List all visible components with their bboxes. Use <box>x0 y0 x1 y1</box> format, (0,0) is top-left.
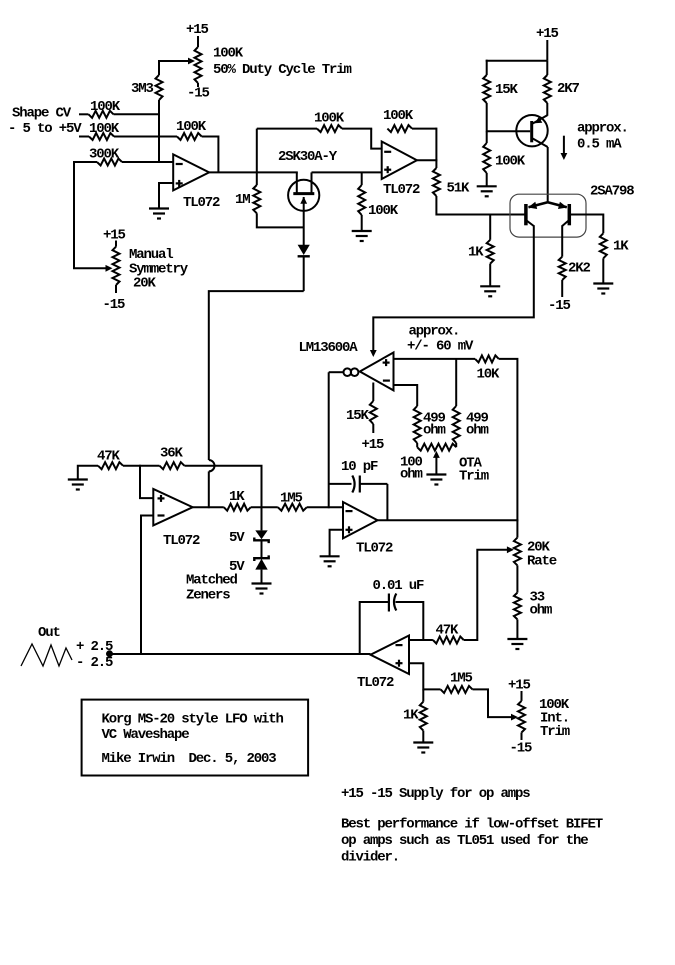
svg-text:1M5: 1M5 <box>450 671 473 687</box>
arrow int trim wiper <box>511 714 518 721</box>
ground (below 100K) <box>352 230 372 232</box>
wire duty trim wiper to 3M3 top <box>159 60 189 62</box>
ground (U1 plus input) <box>149 207 169 209</box>
resistor R_15K 15K with wires <box>486 60 488 75</box>
wire 300K left down to Manual Symmetry wiper <box>74 161 106 268</box>
svg-text:ohm: ohm <box>530 603 553 619</box>
svg-text:2SK30A-Y: 2SK30A-Y <box>278 149 338 165</box>
op-amp U2 TL072 <box>382 142 417 180</box>
transistor Q3b right PNP <box>568 204 572 225</box>
zener Z1 5V <box>261 507 263 530</box>
op-amp U4 TL072 integrator <box>343 502 378 538</box>
ground (integrator plus) <box>320 555 340 557</box>
svg-text:ohm: ohm <box>423 423 446 439</box>
wire trimpot R_sym bottom <box>115 285 117 293</box>
arrow into OTA plus input <box>370 350 377 357</box>
svg-text:100K: 100K <box>213 46 244 62</box>
wire rate pot to 33 ohm <box>516 565 518 592</box>
zener Z2 5V <box>261 540 263 558</box>
resistor R_51K 51K with wires <box>435 160 437 168</box>
ground (47K left) <box>68 478 88 480</box>
svg-text:op amps such as TL051 used for: op amps such as TL051 used for the <box>341 833 588 849</box>
resistor R_b1 1K with wires <box>489 215 491 240</box>
svg-text:+15: +15 <box>186 22 209 38</box>
svg-text:51K: 51K <box>447 181 471 197</box>
svg-text:Zeners: Zeners <box>186 588 230 604</box>
resistor R_b2 1K with wires <box>600 233 607 258</box>
arrow duty trim wiper <box>188 58 195 65</box>
svg-text:Trim: Trim <box>540 724 570 740</box>
svg-text:approx.: approx. <box>409 324 460 340</box>
wire 51K to 2SA798 left base <box>436 214 526 216</box>
wire U2 minus input drop <box>371 129 382 149</box>
svg-text:2K7: 2K7 <box>557 81 580 97</box>
wire integrator plus to ground <box>330 530 343 557</box>
wire right collector to 2K2 <box>561 225 563 256</box>
resistor R_1Ks 1K with wires <box>224 504 251 511</box>
op-amp U5 TL072 Schmitt <box>153 489 192 525</box>
ground (divider 1K) <box>413 741 433 743</box>
wire summing bus (3M3 to op-amp U1 minus input) <box>158 100 160 163</box>
svg-text:0.5 mA: 0.5 mA <box>577 137 622 153</box>
resistor R_10K 10K with wires <box>475 355 499 362</box>
svg-text:+15: +15 <box>103 228 126 244</box>
wire 1M bottom to JFET gate <box>257 213 304 227</box>
wire U2 output to 51K and feedback <box>417 159 438 161</box>
wire corner down to resistor 3M3 <box>158 60 160 75</box>
svg-text:Korg MS-20 style LFO with: Korg MS-20 style LFO with <box>102 712 284 728</box>
resistor R_in3 300K with wires <box>74 161 97 163</box>
resistor R_499a 499 ohm <box>414 406 421 443</box>
svg-text:TL072: TL072 <box>383 182 420 198</box>
arrow OTA trim wiper up <box>433 451 440 458</box>
svg-text:+15: +15 <box>508 678 531 694</box>
svg-text:Shape CV: Shape CV <box>12 106 72 122</box>
svg-text:0.01 uF: 0.01 uF <box>373 578 425 594</box>
resistor R_100Kb 100K with wires <box>486 131 488 143</box>
ground (right 1K) <box>593 282 613 284</box>
wire U5 minus input from Out bus <box>141 516 153 655</box>
svg-text:1K: 1K <box>229 489 245 505</box>
ground (33 ohm) <box>507 638 527 640</box>
resistor R_499b 499 ohm <box>453 406 460 443</box>
resistor R_1M5d 1M5 with wires <box>423 688 440 690</box>
svg-text:Rate: Rate <box>527 554 557 570</box>
svg-text:Out: Out <box>38 625 61 641</box>
svg-text:-15: -15 <box>103 297 126 313</box>
resistor R_1M5 1M5 with wires <box>278 504 307 511</box>
wire U5 output row <box>193 506 224 508</box>
wire +15 rail <box>546 40 548 61</box>
svg-text:1M5: 1M5 <box>280 491 303 507</box>
svg-text:ohm: ohm <box>400 467 423 483</box>
svg-text:36K: 36K <box>160 446 184 462</box>
svg-text:1K: 1K <box>468 245 484 261</box>
transistor Q3a left PNP <box>524 204 528 225</box>
svg-text:1K: 1K <box>403 708 419 724</box>
svg-text:3M3: 3M3 <box>131 81 154 97</box>
capacitor C2 0.01 uF with wires <box>360 602 388 655</box>
svg-text:1M: 1M <box>235 192 250 208</box>
svg-text:Trim: Trim <box>459 469 489 485</box>
svg-text:Mike Irwin Dec. 5, 2003: Mike Irwin Dec. 5, 2003 <box>102 751 277 767</box>
wire threshold node to U5 plus input <box>140 465 153 498</box>
transistor Q1 2SK30A-Y JFET <box>288 180 319 211</box>
svg-text:100K: 100K <box>383 108 414 124</box>
arrow manual symmetry wiper <box>106 265 113 272</box>
svg-text:-15: -15 <box>187 86 210 102</box>
resistor R_mid 100K with wires <box>257 128 317 130</box>
wire integrator minus input <box>307 506 343 508</box>
svg-text:-15: -15 <box>510 741 533 757</box>
wire Q2 collector to 2SA798 emitters <box>547 147 549 203</box>
OTA output double circle <box>344 368 352 376</box>
arrow current direction down <box>563 136 565 154</box>
resistor R_1Kd 1K with wires <box>422 689 424 701</box>
resistor R_in2 100K with wires <box>79 136 89 138</box>
capacitor C1 10 pF with wires <box>329 483 352 485</box>
resistor R_36K 36K with wires <box>140 465 160 467</box>
op-amp U1 TL072 <box>173 154 209 190</box>
resistor R_1M 1M <box>253 185 260 213</box>
svg-text:47K: 47K <box>436 623 460 639</box>
wire OTA output to integrator minus input <box>329 371 344 373</box>
waveform triangle symbol <box>21 644 72 666</box>
wire U6 minus input row <box>409 639 433 641</box>
resistor R_47K 47K with wires <box>78 466 98 480</box>
wire left collector to OTA input arrow <box>373 225 534 350</box>
svg-text:1K: 1K <box>613 239 629 255</box>
svg-text:50% Duty Cycle Trim: 50% Duty Cycle Trim <box>213 62 352 78</box>
wire U1 plus input to ground <box>159 183 173 209</box>
trimpot R_trim 100 ohm OTA Trim <box>417 444 456 451</box>
wire U1 output row <box>209 171 298 173</box>
resistor R_g 100K (to ground) with wires <box>361 172 363 185</box>
wire OTA plus row to 10K <box>394 358 476 360</box>
transistor Q3 2SA798 dual PNP package <box>510 194 586 237</box>
wire +15 to trimpot R_sym <box>115 241 117 247</box>
svg-text:Matched: Matched <box>186 573 238 589</box>
resistor R_47Kd 47K with wires <box>433 637 464 644</box>
op-amp U6 TL072 divider (left-pointing) <box>371 636 410 675</box>
wire OTA minus row to left 499 <box>394 385 418 406</box>
svg-text:47K: 47K <box>97 449 121 465</box>
arrow rate wiper <box>507 546 514 553</box>
svg-text:-15: -15 <box>548 298 571 314</box>
svg-text:+/- 60 mV: +/- 60 mV <box>407 339 474 355</box>
ground (bias 100K) <box>477 185 497 187</box>
wire node column (output node up to 100K row) <box>256 129 258 185</box>
wire right 499 drop from plus row <box>455 359 457 406</box>
wire Out bus <box>110 653 371 655</box>
wire integrator output row <box>378 519 519 521</box>
svg-text:15K: 15K <box>346 408 370 424</box>
svg-text:divider.: divider. <box>341 850 399 866</box>
op-amp U3 LM13600A OTA <box>360 353 394 391</box>
svg-text:+15: +15 <box>536 26 559 42</box>
resistor R_2K7 2K7 with wires <box>546 61 548 75</box>
svg-text:100K: 100K <box>495 154 526 170</box>
svg-text:VC Waveshape: VC Waveshape <box>102 727 190 743</box>
svg-text:20K: 20K <box>133 276 157 292</box>
svg-text:approx.: approx. <box>577 121 628 137</box>
ground (left 1K) <box>480 285 500 287</box>
svg-text:TL072: TL072 <box>163 533 200 549</box>
svg-text:2K2: 2K2 <box>568 261 591 277</box>
title box <box>82 700 309 776</box>
wire integrator output down to rate pot <box>516 520 518 537</box>
svg-text:5V: 5V <box>229 530 245 546</box>
svg-text:- 2.5: - 2.5 <box>76 655 113 671</box>
resistor R_33 33 ohm <box>514 593 521 620</box>
svg-text:Best performance if low-offset: Best performance if low-offset BIFET <box>341 817 603 833</box>
resistor R_in1 100K with wires <box>79 113 89 115</box>
wire OTA trim wiper to ground <box>435 457 437 475</box>
svg-text:15K: 15K <box>495 82 519 98</box>
svg-text:TL072: TL072 <box>183 195 220 211</box>
svg-text:ohm: ohm <box>466 423 489 439</box>
ground (OTA trim) <box>426 473 446 475</box>
trimpot R_rate 20K Rate <box>514 538 521 566</box>
svg-text:+15: +15 <box>362 437 385 453</box>
svg-text:- 5 to +5V: - 5 to +5V <box>8 121 82 137</box>
wire U6 plus input to divider node <box>409 663 423 690</box>
wire right base to 1K <box>569 215 603 234</box>
resistor R_fb2 100K (U2 feedback) with wires <box>387 125 412 132</box>
svg-text:+15 -15 Supply for op amps: +15 -15 Supply for op amps <box>341 786 530 802</box>
wire +15 to trimpot R_duty <box>197 36 199 47</box>
svg-text:100K: 100K <box>368 203 399 219</box>
svg-text:2SA798: 2SA798 <box>590 184 634 200</box>
resistor R_15Kb 15K (OTA bias) with wires <box>372 383 374 402</box>
wire trimpot R_duty bottom to -15 <box>197 83 199 87</box>
wire base row to Q2 <box>487 130 531 132</box>
trimpot R_sym Manual Symmetry 20K <box>113 247 120 285</box>
svg-text:10 pF: 10 pF <box>341 459 378 475</box>
resistor R_2K2 2K2 with wires <box>559 257 566 280</box>
svg-text:LM13600A: LM13600A <box>299 340 359 356</box>
node Out junction dot <box>106 650 113 657</box>
svg-text:TL072: TL072 <box>356 541 393 557</box>
resistor R_3M3 3M3 <box>156 75 163 100</box>
wire JFET source to comparator plus row <box>312 171 382 173</box>
wire rate wiper to 47K (divider) <box>477 550 507 641</box>
resistor R_fb1 100K feedback with wires <box>177 133 202 140</box>
wire D1 cathode down-left-down to Schmitt output (with hop) <box>303 256 305 291</box>
trimpot R_int 100K Int. Trim <box>521 691 523 701</box>
ground (zeners) <box>252 582 272 584</box>
svg-text:10K: 10K <box>477 367 501 383</box>
svg-text:100K: 100K <box>314 111 345 127</box>
transistor Q2 PNP current source <box>516 115 547 146</box>
diode D1 <box>298 245 310 255</box>
svg-text:TL072: TL072 <box>357 675 394 691</box>
trimpot R_duty 100K 50% Duty Cycle Trim <box>195 47 202 83</box>
